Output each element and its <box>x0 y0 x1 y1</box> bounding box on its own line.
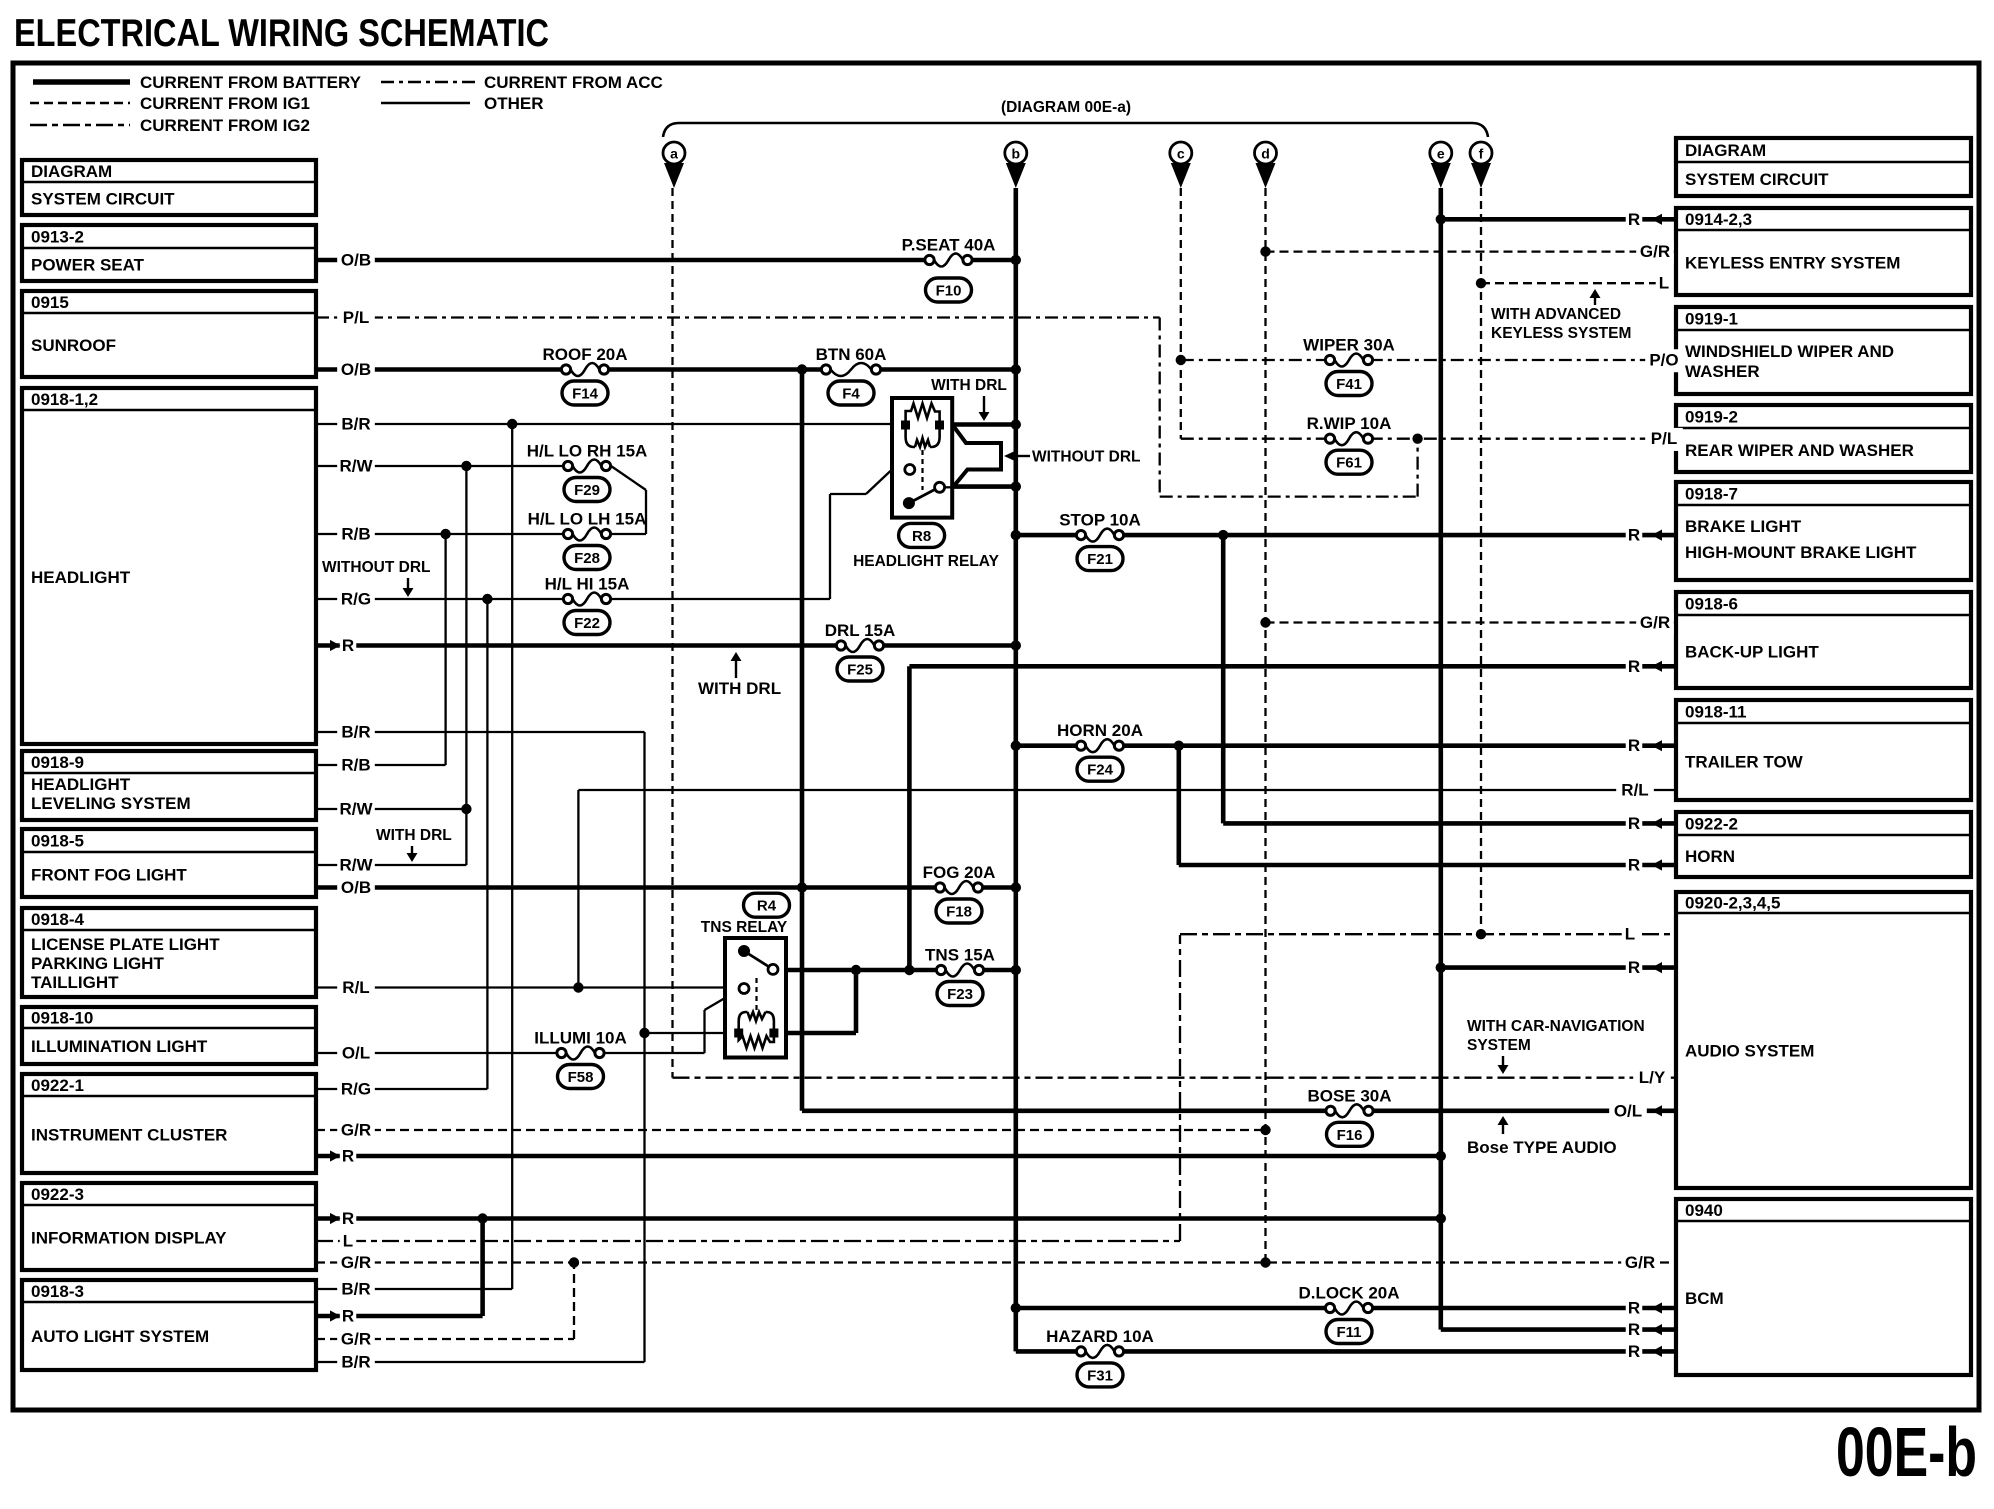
svg-text:F41: F41 <box>1336 376 1362 393</box>
box 0915 sunroof <box>22 291 316 377</box>
wire R horn 1 <box>1223 821 1676 826</box>
svg-text:G/R: G/R <box>341 1253 371 1272</box>
svg-text:WITH ADVANCED: WITH ADVANCED <box>1491 306 1621 323</box>
svg-text:HIGH-MOUNT BRAKE LIGHT: HIGH-MOUNT BRAKE LIGHT <box>1685 543 1917 562</box>
svg-text:ILLUMINATION LIGHT: ILLUMINATION LIGHT <box>31 1037 208 1056</box>
svg-text:WIPER 30A: WIPER 30A <box>1303 336 1395 355</box>
relay R4 box <box>725 938 786 1058</box>
svg-text:PARKING LIGHT: PARKING LIGHT <box>31 954 164 973</box>
legend: current from battery <box>33 79 130 85</box>
wire G/R keyless (IG1) <box>1266 250 1677 252</box>
box 0940 bcm <box>1676 1199 1971 1375</box>
wire R keyless (battery) <box>1441 217 1676 222</box>
wire R auto light (battery) <box>316 1314 483 1319</box>
fuse ROOF 20A / F14 <box>561 364 608 375</box>
svg-text:DIAGRAM: DIAGRAM <box>1685 141 1766 160</box>
svg-text:LEVELING SYSTEM: LEVELING SYSTEM <box>31 794 191 813</box>
vertical R/W riser <box>465 466 467 865</box>
svg-text:O/B: O/B <box>341 878 371 897</box>
svg-text:R8: R8 <box>912 528 931 545</box>
legend: current from ACC <box>381 81 476 84</box>
box 0922-3 information display <box>22 1183 316 1270</box>
legend: current from IG1 <box>30 102 130 105</box>
svg-text:R: R <box>1628 1299 1640 1318</box>
svg-text:F14: F14 <box>572 386 599 403</box>
svg-text:L: L <box>343 1232 353 1251</box>
wire: F29 output diagonal <box>611 466 646 490</box>
svg-text:TRAILER TOW: TRAILER TOW <box>1685 753 1804 772</box>
wire: connector b vertical (battery) <box>1013 188 1018 1351</box>
fuse BTN 60A / F4 <box>821 364 880 375</box>
svg-text:R/B: R/B <box>341 525 370 544</box>
svg-text:DIAGRAM: DIAGRAM <box>31 162 112 181</box>
svg-text:SYSTEM CIRCUIT: SYSTEM CIRCUIT <box>31 190 175 209</box>
wire L/Y to audio (IG2) <box>673 1077 1677 1079</box>
svg-text:F4: F4 <box>842 386 860 403</box>
box 0919-1 windshield wiper and washer <box>1676 307 1971 394</box>
svg-text:R4: R4 <box>757 898 777 915</box>
svg-text:DRL 15A: DRL 15A <box>825 621 896 640</box>
fuse DRL 15A / F25 <box>836 640 883 651</box>
R8 switch <box>905 465 915 475</box>
svg-text:AUDIO SYSTEM: AUDIO SYSTEM <box>1685 1042 1814 1061</box>
svg-text:R/W: R/W <box>339 856 373 875</box>
fuse H/L LO RH 15A / F29 <box>563 460 610 471</box>
wire R bcm2 from e (battery) <box>1441 1327 1676 1332</box>
svg-text:TNS 15A: TNS 15A <box>925 946 995 965</box>
svg-text:B/R: B/R <box>341 415 370 434</box>
fuse TNS 15A / F23 <box>936 964 983 975</box>
svg-text:SYSTEM: SYSTEM <box>1467 1037 1531 1054</box>
wire: relay coil output to b <box>940 422 1016 427</box>
fuse WIPER 30A / F41 <box>1325 354 1372 365</box>
svg-text:G/R: G/R <box>1640 242 1670 261</box>
svg-text:0918-6: 0918-6 <box>1685 595 1738 614</box>
wire R bcm1 (D.LOCK, battery) <box>1016 1306 1676 1311</box>
svg-text:R/G: R/G <box>341 1080 371 1099</box>
connector b <box>1005 142 1027 164</box>
svg-text:FOG 20A: FOG 20A <box>923 863 996 882</box>
svg-text:R: R <box>342 636 354 655</box>
svg-text:0940: 0940 <box>1685 1201 1723 1220</box>
vertical B/R lower to auto light <box>643 732 645 1362</box>
fuse D.LOCK 20A / F11 <box>1325 1302 1372 1313</box>
svg-text:KEYLESS ENTRY SYSTEM: KEYLESS ENTRY SYSTEM <box>1685 254 1900 273</box>
wire B/R auto light 1 <box>316 1288 512 1290</box>
wire: TNS coil left branch <box>645 1032 739 1034</box>
svg-text:WASHER: WASHER <box>1685 362 1760 381</box>
wire B/R auto light 2 <box>316 1361 645 1363</box>
svg-text:G/R: G/R <box>1625 1253 1655 1272</box>
svg-text:R: R <box>342 1147 354 1166</box>
svg-text:(DIAGRAM 00E-a): (DIAGRAM 00E-a) <box>1001 99 1131 116</box>
left wire labels <box>337 249 375 272</box>
wire R/G headlight through F22 (H/L HI) <box>316 598 830 600</box>
vertical B/R main riser <box>511 424 513 1289</box>
svg-text:R: R <box>1628 814 1640 833</box>
svg-text:R: R <box>1628 856 1640 875</box>
wire L information display (IG2) <box>316 1240 1180 1242</box>
svg-text:ELECTRICAL WIRING SCHEMATIC: ELECTRICAL WIRING SCHEMATIC <box>14 12 549 55</box>
svg-text:F21: F21 <box>1087 551 1113 568</box>
wire: back-up R line <box>909 664 1676 669</box>
box 0918-1,2 headlight <box>22 388 316 744</box>
svg-text:0918-9: 0918-9 <box>31 753 84 772</box>
svg-text:F58: F58 <box>568 1069 594 1086</box>
R8 actuation dashed <box>921 450 923 490</box>
svg-text:R/L: R/L <box>1621 781 1648 800</box>
wire: connector f vertical (dashed) <box>1480 188 1482 934</box>
box 0918-11 trailer tow <box>1676 700 1971 800</box>
wire R instrument cluster (battery) <box>316 1154 1441 1159</box>
box 0920-2,3,4,5 audio system <box>1676 892 1971 1188</box>
svg-text:O/L: O/L <box>1614 1101 1642 1120</box>
svg-text:P/O: P/O <box>1649 351 1678 370</box>
svg-text:G/R: G/R <box>341 1330 371 1349</box>
svg-text:HORN: HORN <box>1685 847 1735 866</box>
svg-text:AUTO LIGHT SYSTEM: AUTO LIGHT SYSTEM <box>31 1327 209 1346</box>
svg-text:WITH DRL: WITH DRL <box>698 679 781 698</box>
svg-text:F31: F31 <box>1087 1367 1113 1384</box>
svg-text:CURRENT FROM ACC: CURRENT FROM ACC <box>484 73 663 92</box>
svg-text:F23: F23 <box>947 986 973 1003</box>
svg-text:0919-1: 0919-1 <box>1685 310 1738 329</box>
svg-text:HEADLIGHT: HEADLIGHT <box>31 568 131 587</box>
wire G/R back-up (IG1) <box>1266 621 1677 623</box>
svg-text:INFORMATION DISPLAY: INFORMATION DISPLAY <box>31 1229 227 1248</box>
svg-text:0920-2,3,4,5: 0920-2,3,4,5 <box>1685 894 1780 913</box>
wire B/R headlight lower <box>316 731 645 733</box>
svg-text:d: d <box>1261 146 1270 162</box>
wire R/W front fog <box>316 864 466 866</box>
svg-text:G/R: G/R <box>341 1121 371 1140</box>
wire: connector e vertical (battery) <box>1439 188 1444 1330</box>
vertical R/B riser <box>444 534 446 765</box>
svg-text:OTHER: OTHER <box>484 94 544 113</box>
wire R.WIP line (ACC) <box>1181 438 1676 440</box>
fuse FOG 20A / F18 <box>935 882 982 893</box>
svg-text:F16: F16 <box>1337 1127 1363 1144</box>
svg-text:B/R: B/R <box>341 1353 370 1372</box>
legend: other <box>381 102 470 105</box>
R8 oval label <box>899 523 945 547</box>
svg-text:0919-2: 0919-2 <box>1685 408 1738 427</box>
svg-text:0918-1,2: 0918-1,2 <box>31 390 98 409</box>
fuse H/L LO LH 15A / F28 <box>563 528 610 539</box>
box 0922-2 horn <box>1676 812 1971 877</box>
wire: connector d vertical (dashed) <box>1264 188 1266 1263</box>
vertical R info display to auto light <box>480 1219 485 1317</box>
svg-text:a: a <box>670 146 678 162</box>
wire R/L to trailer tow <box>578 789 1676 791</box>
svg-text:0918-5: 0918-5 <box>31 832 84 851</box>
svg-text:R.WIP 10A: R.WIP 10A <box>1307 414 1392 433</box>
svg-text:POWER SEAT: POWER SEAT <box>31 256 145 275</box>
connector a <box>663 142 685 164</box>
svg-text:WITH CAR-NAVIGATION: WITH CAR-NAVIGATION <box>1467 1018 1645 1035</box>
fuse P.SEAT 40A / F10 <box>925 254 972 265</box>
svg-text:H/L LO RH 15A: H/L LO RH 15A <box>527 442 648 461</box>
box: diagram/system circuit (left) <box>22 160 316 215</box>
svg-text:FRONT FOG LIGHT: FRONT FOG LIGHT <box>31 866 187 885</box>
svg-text:INSTRUMENT CLUSTER: INSTRUMENT CLUSTER <box>31 1126 227 1145</box>
svg-text:0918-4: 0918-4 <box>31 910 84 929</box>
wire R information display (battery) <box>316 1216 1441 1221</box>
relay R8 box <box>892 398 952 518</box>
svg-text:F22: F22 <box>574 615 600 632</box>
box 0918-6 back-up light <box>1676 592 1971 688</box>
svg-text:TNS RELAY: TNS RELAY <box>701 919 788 936</box>
R8 funnel (without DRL notch) <box>953 426 1001 488</box>
wire: STOP line to brake light <box>1016 533 1676 538</box>
junction dots <box>1011 255 1021 265</box>
fuse H/L HI 15A / F22 <box>563 593 610 604</box>
svg-text:ILLUMI 10A: ILLUMI 10A <box>534 1029 627 1048</box>
svg-text:F11: F11 <box>1336 1324 1361 1341</box>
svg-text:H/L HI 15A: H/L HI 15A <box>545 575 630 594</box>
wire R audio (battery) <box>1441 965 1676 970</box>
wire R/L license/parking <box>316 986 741 988</box>
svg-text:0913-2: 0913-2 <box>31 228 84 247</box>
riser O/L to TNS relay <box>703 1010 705 1053</box>
fuse HAZARD 10A / F31 <box>1076 1346 1123 1357</box>
right wire labels <box>1626 209 1643 232</box>
svg-text:F25: F25 <box>847 662 873 679</box>
svg-text:R: R <box>1628 1320 1640 1339</box>
R4 coil <box>734 1029 743 1038</box>
box 0918-3 auto light system <box>22 1280 316 1370</box>
svg-text:Bose TYPE AUDIO: Bose TYPE AUDIO <box>1467 1138 1617 1157</box>
svg-text:f: f <box>1479 146 1484 162</box>
svg-text:F18: F18 <box>946 904 972 921</box>
svg-text:B/R: B/R <box>341 723 370 742</box>
connector d <box>1255 142 1277 164</box>
wire G/R instrument cluster (IG1) <box>316 1129 1266 1131</box>
wire: TNS output line <box>778 968 1017 973</box>
svg-text:CURRENT FROM BATTERY: CURRENT FROM BATTERY <box>140 73 362 92</box>
svg-text:WITHOUT DRL: WITHOUT DRL <box>1032 449 1140 466</box>
fuse BOSE 30A / F16 <box>1326 1105 1373 1116</box>
svg-text:0918-11: 0918-11 <box>1685 703 1746 722</box>
box 0914-2,3 keyless entry system <box>1676 208 1971 295</box>
svg-text:R: R <box>1628 736 1640 755</box>
svg-text:BACK-UP LIGHT: BACK-UP LIGHT <box>1685 643 1819 662</box>
box 0918-10 illumination light <box>22 1007 316 1064</box>
svg-text:WITH DRL: WITH DRL <box>931 377 1007 394</box>
wire R/W leveling <box>316 808 466 810</box>
fuse R.WIP 10A / F61 <box>1325 433 1372 444</box>
bracket (DIAGRAM 00E-a) <box>663 123 1488 137</box>
wire R headlight (battery, DRL) <box>316 643 1016 648</box>
svg-text:R/W: R/W <box>339 800 373 819</box>
svg-text:R: R <box>342 1209 354 1228</box>
svg-text:REAR WIPER AND WASHER: REAR WIPER AND WASHER <box>1685 441 1914 460</box>
direction arrows <box>330 640 341 651</box>
svg-text:0922-3: 0922-3 <box>31 1185 84 1204</box>
vertical R/G riser <box>486 599 488 1089</box>
wire R/B leveling <box>316 764 446 766</box>
box 0922-1 instrument cluster <box>22 1074 316 1173</box>
connector c <box>1170 142 1192 164</box>
box 0918-4 license/parking/taillight <box>22 908 316 997</box>
fuse HORN 20A / F24 <box>1076 740 1123 751</box>
legend: current from IG2 <box>30 124 130 127</box>
svg-text:HEADLIGHT: HEADLIGHT <box>31 775 131 794</box>
svg-text:CURRENT FROM IG2: CURRENT FROM IG2 <box>140 116 310 135</box>
vertical R/L riser to trailer tow <box>577 790 579 988</box>
wire: relay switch output to b <box>944 484 1016 489</box>
svg-text:R/W: R/W <box>339 457 373 476</box>
svg-text:SYSTEM CIRCUIT: SYSTEM CIRCUIT <box>1685 170 1829 189</box>
wire: BTN riser x=802 (battery) <box>800 370 805 1111</box>
svg-text:L: L <box>1659 274 1669 293</box>
svg-text:F28: F28 <box>574 550 600 567</box>
svg-text:O/B: O/B <box>341 360 371 379</box>
wire R/G instrument cluster <box>316 1088 487 1090</box>
R8 coil <box>901 421 910 430</box>
svg-text:R/L: R/L <box>342 978 369 997</box>
svg-text:R: R <box>1628 1342 1640 1361</box>
svg-text:R/B: R/B <box>341 756 370 775</box>
wire R horn 2 <box>1179 863 1676 868</box>
svg-text:P/L: P/L <box>343 308 369 327</box>
svg-text:F29: F29 <box>574 482 600 499</box>
svg-text:D.LOCK 20A: D.LOCK 20A <box>1298 1284 1399 1303</box>
svg-text:e: e <box>1437 146 1445 162</box>
svg-text:0914-2,3: 0914-2,3 <box>1685 210 1752 229</box>
svg-text:R: R <box>342 1307 354 1326</box>
svg-text:b: b <box>1012 146 1021 162</box>
vertical horn fuse out to horn R2 <box>1177 746 1182 865</box>
box 0919-2 rear wiper and washer <box>1676 405 1971 472</box>
svg-text:P.SEAT 40A: P.SEAT 40A <box>902 236 996 255</box>
svg-text:R: R <box>1628 526 1640 545</box>
svg-text:R: R <box>1628 958 1640 977</box>
wire O/B power seat <box>316 258 1016 263</box>
svg-text:O/B: O/B <box>341 251 371 270</box>
wire: connector c vertical (dashed) <box>1180 188 1182 439</box>
svg-text:R: R <box>1628 657 1640 676</box>
svg-text:0922-1: 0922-1 <box>31 1076 84 1095</box>
svg-text:F61: F61 <box>1336 455 1362 472</box>
svg-text:BCM: BCM <box>1685 1289 1724 1308</box>
svg-text:TAILLIGHT: TAILLIGHT <box>31 973 119 992</box>
svg-text:G/R: G/R <box>1640 613 1670 632</box>
svg-text:L/Y: L/Y <box>1639 1068 1666 1087</box>
svg-text:SUNROOF: SUNROOF <box>31 336 116 355</box>
box 0913-2 power seat <box>22 225 316 281</box>
svg-text:0918-3: 0918-3 <box>31 1282 84 1301</box>
svg-text:WITHOUT DRL: WITHOUT DRL <box>322 559 430 576</box>
wire R bcm3 (HAZARD, battery) <box>1016 1349 1676 1354</box>
box: diagram/system circuit (right) <box>1676 138 1971 196</box>
wire R/B headlight through F28 <box>316 533 646 535</box>
R4 oval label <box>744 893 790 917</box>
svg-text:P/L: P/L <box>1651 429 1677 448</box>
fuse ILLUMI 10A / F58 <box>557 1047 604 1058</box>
svg-text:0918-10: 0918-10 <box>31 1009 93 1028</box>
fuse STOP 10A / F21 <box>1076 530 1123 541</box>
vertical back-up R to TNS output <box>907 666 912 970</box>
wire P/O wiper (ACC) <box>1181 359 1676 361</box>
svg-text:B/R: B/R <box>341 1280 370 1299</box>
connector f <box>1470 142 1492 164</box>
vertical G/R riser <box>573 1263 575 1340</box>
wire: H/L HI riser to relay <box>829 494 831 599</box>
svg-text:0915: 0915 <box>31 293 69 312</box>
box 0918-7 brake light <box>1676 482 1971 580</box>
box 0918-5 front fog light <box>22 829 316 897</box>
svg-text:HAZARD 10A: HAZARD 10A <box>1046 1327 1154 1346</box>
vertical IG2 riser at 1180 <box>1179 935 1181 1241</box>
wire O/B front fog (battery, FOG) <box>316 885 1016 890</box>
R4 actuation dashed <box>755 978 757 1012</box>
wire O/B sunroof (battery) <box>316 367 1016 372</box>
svg-text:WINDSHIELD WIPER AND: WINDSHIELD WIPER AND <box>1685 342 1894 361</box>
svg-text:BRAKE LIGHT: BRAKE LIGHT <box>1685 517 1802 536</box>
svg-text:R: R <box>1628 210 1640 229</box>
wire G/R auto light (IG1) <box>316 1338 574 1340</box>
wire: BOSE O/L line (battery) <box>802 1109 1676 1114</box>
svg-text:BTN 60A: BTN 60A <box>816 345 887 364</box>
wire: P/L loop (ACC) <box>1159 318 1161 497</box>
wire G/R information display to BCM (IG1) <box>316 1261 1676 1263</box>
svg-text:R/G: R/G <box>341 590 371 609</box>
svg-text:00E-b: 00E-b <box>1836 1413 1977 1491</box>
connector e <box>1430 142 1452 164</box>
svg-text:L: L <box>1625 925 1635 944</box>
svg-text:WITH DRL: WITH DRL <box>376 827 452 844</box>
R4 switch <box>738 945 750 957</box>
svg-text:H/L LO LH 15A: H/L LO LH 15A <box>528 510 647 529</box>
svg-text:CURRENT FROM IG1: CURRENT FROM IG1 <box>140 94 310 113</box>
vertical from STOP to HORN R <box>1221 535 1226 823</box>
wire L keyless (IG1) <box>1481 282 1676 284</box>
wire R/W headlight through F29 <box>316 465 611 467</box>
svg-text:0918-7: 0918-7 <box>1685 485 1738 504</box>
wire L to audio (IG2) <box>1180 933 1676 935</box>
wire O/L illumination through F58 <box>316 1052 705 1054</box>
svg-text:LICENSE PLATE LIGHT: LICENSE PLATE LIGHT <box>31 935 220 954</box>
svg-text:KEYLESS SYSTEM: KEYLESS SYSTEM <box>1491 325 1631 342</box>
vertical TNS coil feed <box>854 970 859 1033</box>
svg-text:F24: F24 <box>1087 762 1114 779</box>
svg-text:0922-2: 0922-2 <box>1685 815 1738 834</box>
wire P/L sunroof (ACC) <box>316 316 1160 318</box>
box 0918-9 headlight leveling system <box>22 751 316 820</box>
wire: HORN 20A line to trailer tow <box>1016 743 1676 748</box>
svg-text:STOP 10A: STOP 10A <box>1059 511 1141 530</box>
svg-text:O/L: O/L <box>342 1044 370 1063</box>
svg-text:c: c <box>1177 146 1185 162</box>
svg-text:HEADLIGHT RELAY: HEADLIGHT RELAY <box>853 553 999 570</box>
wire B/R headlight to relay coil <box>316 423 906 425</box>
svg-text:ROOF 20A: ROOF 20A <box>542 345 627 364</box>
svg-text:BOSE 30A: BOSE 30A <box>1307 1086 1391 1105</box>
svg-text:HORN 20A: HORN 20A <box>1057 721 1143 740</box>
svg-text:F10: F10 <box>936 283 962 300</box>
wire: connector a vertical (dashed) <box>671 188 673 1078</box>
